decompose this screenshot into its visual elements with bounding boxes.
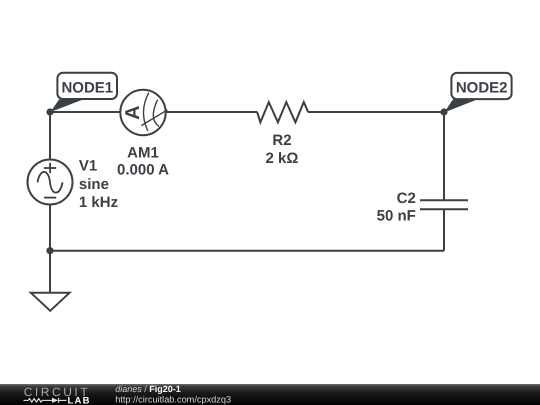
node NODE1 callout	[51, 73, 118, 112]
footer bar	[0, 384, 540, 405]
junction dot node2	[440, 108, 447, 115]
svg-text:C2: C2	[397, 190, 416, 207]
label AM1 0.000 A	[117, 145, 169, 179]
svg-text:V1: V1	[79, 158, 97, 175]
wire resistor to node2	[308, 111, 444, 113]
wire junction down to ground	[49, 251, 51, 293]
wire node1 down to V1	[49, 112, 51, 160]
ammeter letter A	[122, 105, 144, 119]
svg-text:NODE2: NODE2	[456, 80, 508, 97]
resistor R2	[257, 102, 308, 122]
wire node1 to ammeter	[50, 111, 120, 113]
wire capacitor to bottom	[443, 209, 445, 251]
logo LAB text	[68, 395, 91, 405]
svg-text:dianes / Fig20-1: dianes / Fig20-1	[115, 384, 181, 394]
svg-text:A: A	[122, 105, 144, 119]
junction dot ground	[46, 247, 53, 254]
label V1 sine 1 kHz	[79, 158, 118, 211]
svg-text:1 kHz: 1 kHz	[79, 194, 118, 211]
svg-text:50 nF: 50 nF	[377, 208, 416, 225]
svg-text:sine: sine	[79, 176, 109, 193]
svg-text:R2: R2	[272, 132, 291, 149]
wire V1 to bottom junction	[49, 205, 51, 252]
label C2 50 nF	[377, 190, 416, 225]
ammeter AM1	[120, 90, 167, 135]
svg-text:http://circuitlab.com/cpxdzq3: http://circuitlab.com/cpxdzq3	[115, 394, 231, 404]
wire bottom (junction to capacitor)	[50, 250, 444, 252]
footer title dianes / Fig20-1	[115, 384, 231, 404]
capacitor C2	[420, 200, 468, 209]
junction dot node1	[46, 108, 53, 115]
label NODE2	[456, 80, 508, 97]
wire ammeter to resistor	[166, 111, 258, 113]
voltage source V1	[28, 160, 73, 205]
logo CIRCUIT text	[24, 385, 91, 399]
svg-text:LAB: LAB	[68, 395, 91, 405]
logo waveform resistor and diode	[24, 398, 67, 403]
svg-text:0.000 A: 0.000 A	[117, 162, 169, 179]
node NODE2 callout	[444, 73, 511, 113]
svg-text:NODE1: NODE1	[61, 80, 113, 97]
label NODE1	[61, 80, 113, 97]
wire node2 down to capacitor	[443, 112, 445, 200]
svg-text:2 kΩ: 2 kΩ	[266, 150, 299, 167]
label R2 2 kOhm	[266, 132, 299, 167]
svg-text:AM1: AM1	[127, 145, 159, 162]
ground	[31, 293, 70, 311]
